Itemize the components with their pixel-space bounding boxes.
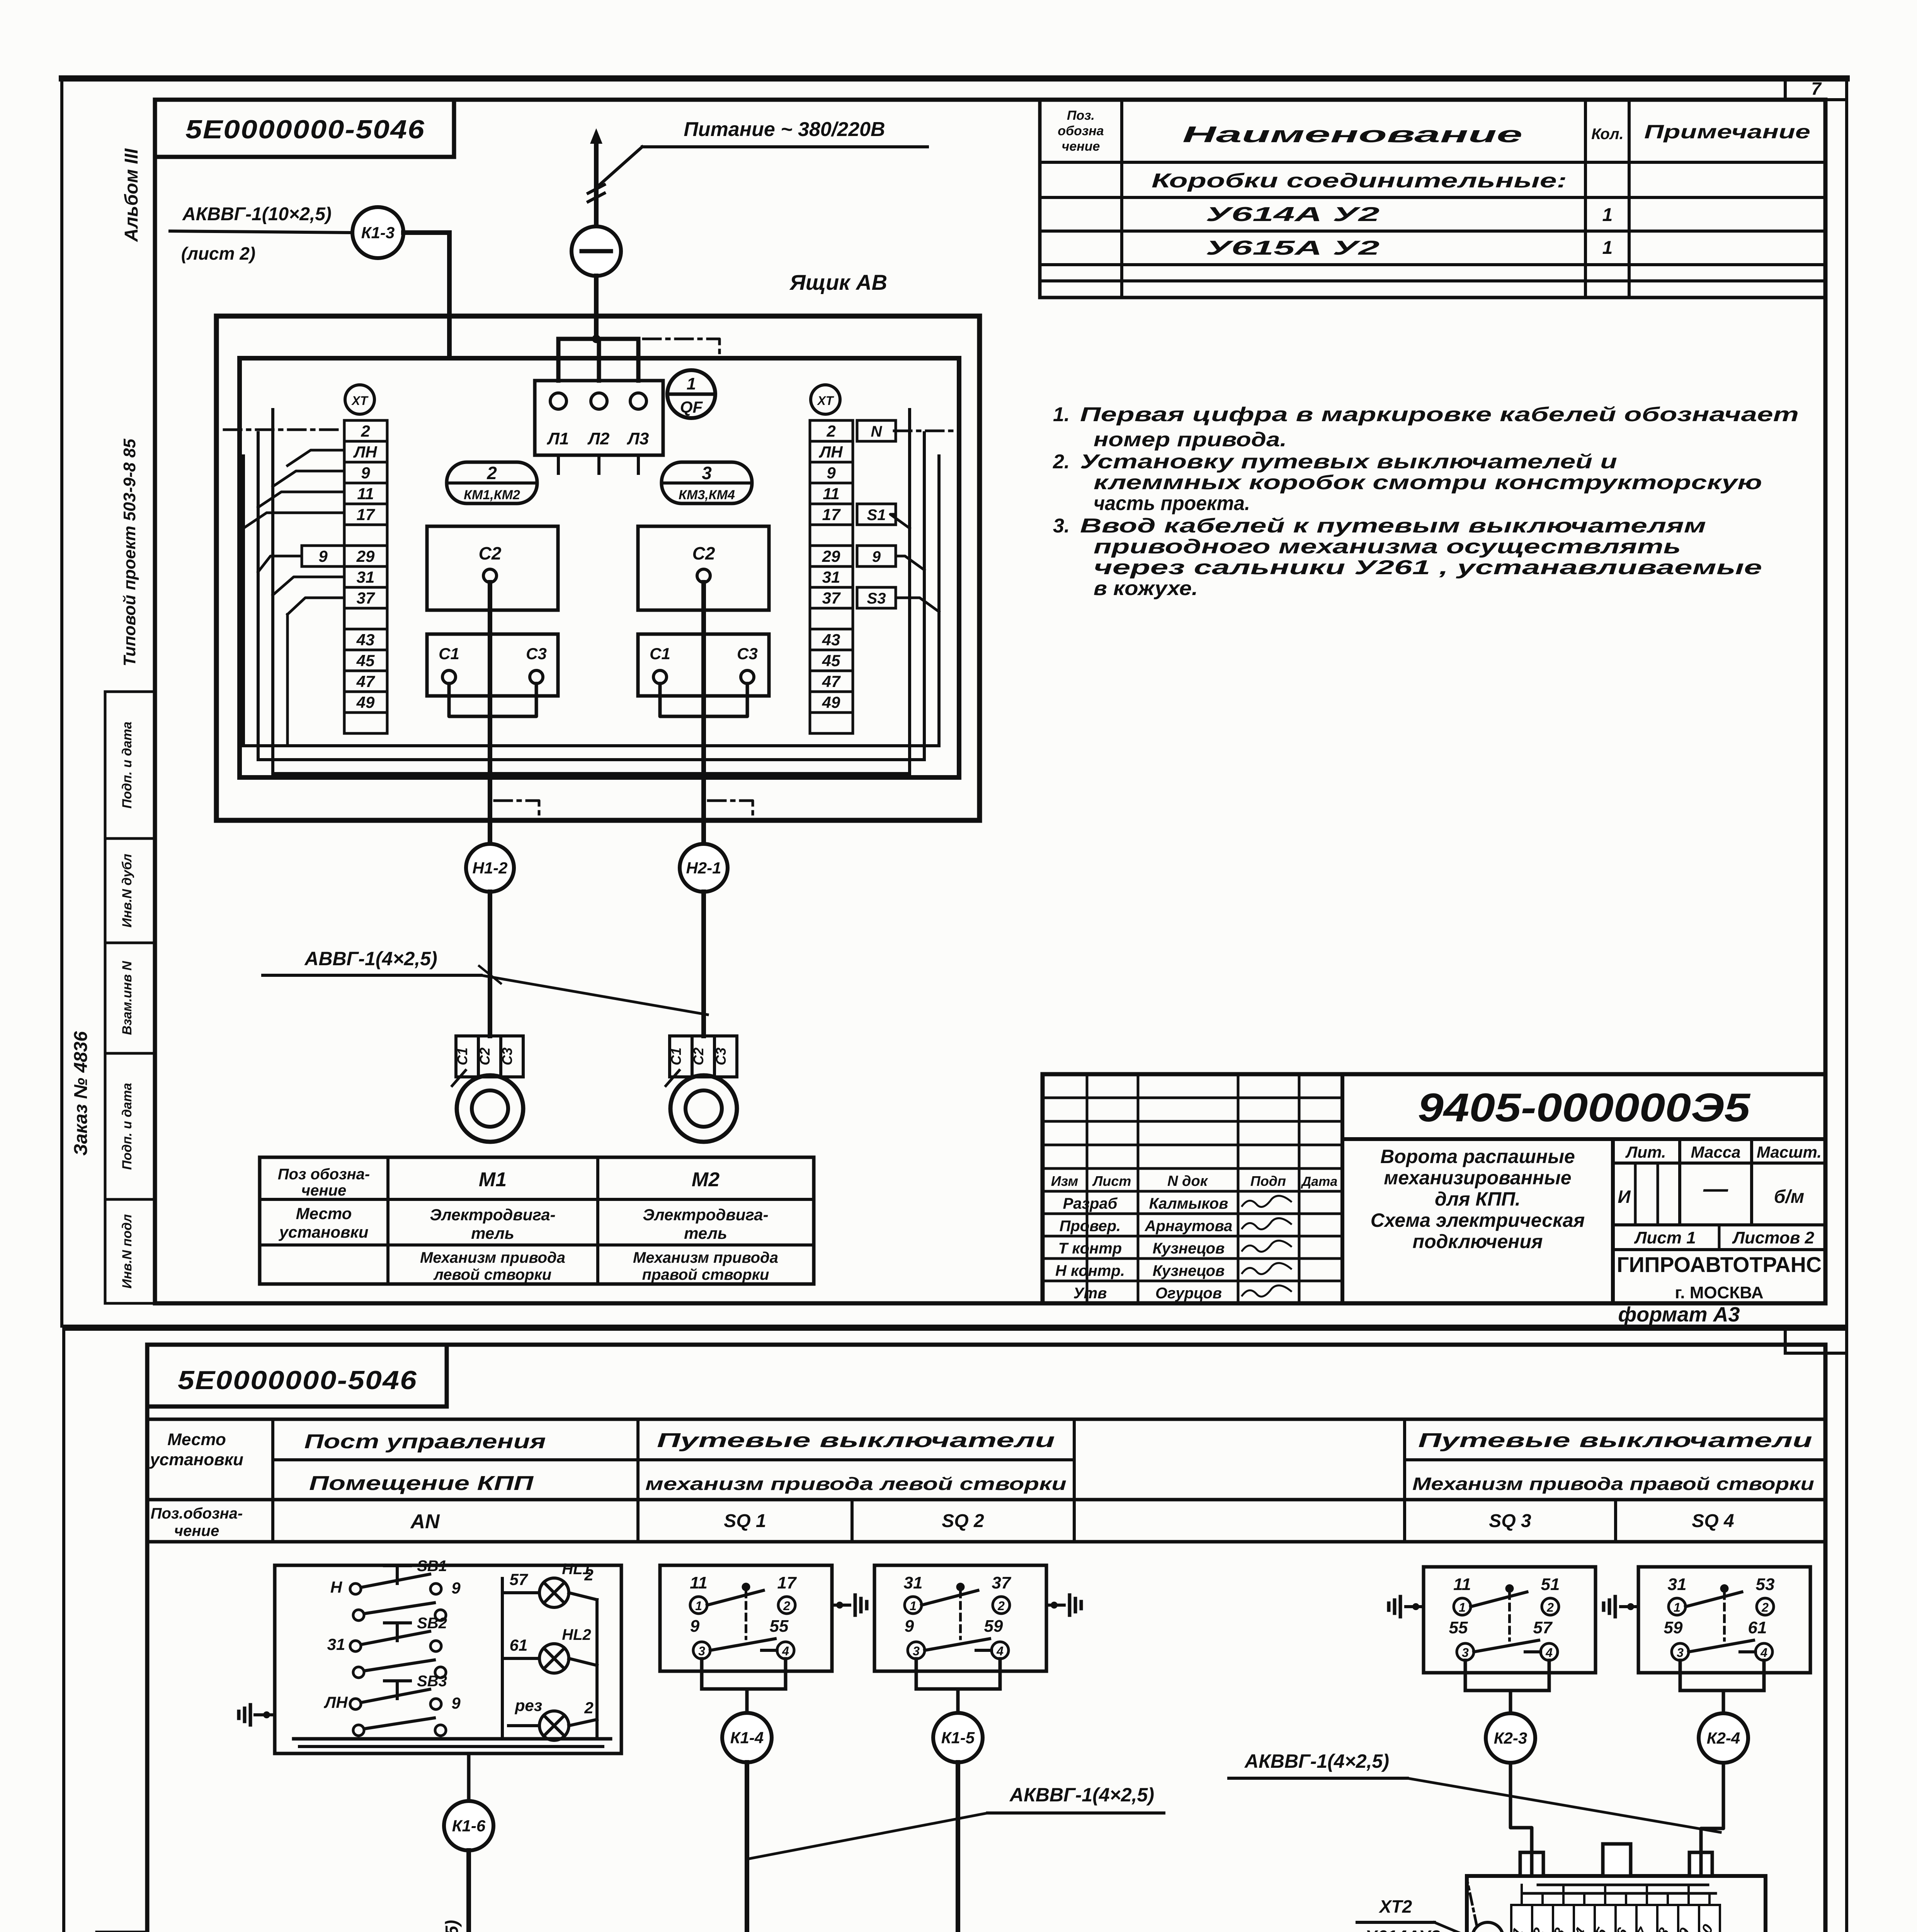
svg-text:9: 9	[318, 547, 328, 565]
svg-text:49: 49	[822, 693, 840, 711]
svg-text:SQ 4: SQ 4	[1692, 1511, 1734, 1531]
svg-text:механизированные: механизированные	[1384, 1167, 1571, 1189]
svg-text:К2-3: К2-3	[1494, 1729, 1527, 1747]
svg-text:К2-4: К2-4	[1707, 1729, 1740, 1747]
svg-text:Типовой проект 503-9-8 85: Типовой проект 503-9-8 85	[120, 439, 139, 666]
svg-text:У614А У2: У614А У2	[1206, 203, 1379, 226]
svg-text:С2: С2	[692, 543, 715, 563]
svg-text:правой створки: правой створки	[642, 1266, 769, 1283]
svg-text:SQ 1: SQ 1	[724, 1511, 766, 1531]
svg-text:1.: 1.	[1053, 403, 1070, 426]
svg-text:Альбом III: Альбом III	[121, 148, 142, 242]
svg-text:2: 2	[1546, 1600, 1554, 1614]
svg-text:г. МОСКВА: г. МОСКВА	[1675, 1283, 1763, 1302]
svg-text:Н1-2: Н1-2	[472, 859, 507, 877]
svg-text:Лит.: Лит.	[1625, 1143, 1666, 1161]
svg-text:Н: Н	[330, 1578, 343, 1596]
svg-text:левой створки: левой створки	[433, 1266, 551, 1283]
svg-text:47: 47	[356, 672, 375, 690]
svg-text:59: 59	[1664, 1618, 1683, 1637]
svg-text:Электродвига-: Электродвига-	[643, 1206, 768, 1224]
svg-text:11: 11	[1453, 1575, 1471, 1594]
svg-text:17: 17	[357, 505, 375, 524]
svg-text:Коробки соединительные:: Коробки соединительные:	[1152, 170, 1567, 192]
svg-text:S3: S3	[867, 590, 886, 607]
svg-text:Калмыков: Калмыков	[1149, 1195, 1228, 1212]
svg-text:Заказ № 4836: Заказ № 4836	[71, 1031, 91, 1156]
svg-text:57: 57	[1533, 1618, 1553, 1637]
svg-text:Схема электрическая: Схема электрическая	[1371, 1209, 1585, 1231]
svg-text:АКВВГ-1(4×2,5): АКВВГ-1(4×2,5)	[1244, 1750, 1389, 1772]
svg-text:SB2: SB2	[417, 1615, 447, 1632]
svg-text:5Е0000000-5046: 5Е0000000-5046	[178, 1366, 417, 1395]
svg-text:установки: установки	[149, 1450, 243, 1469]
svg-text:механизм привода левой створки: механизм привода левой створки	[645, 1474, 1067, 1494]
svg-text:часть проекта.: часть проекта.	[1094, 492, 1250, 515]
svg-text:Первая цифра в маркировке кабе: Первая цифра в маркировке кабелей обозна…	[1080, 403, 1799, 426]
svg-text:53: 53	[1756, 1575, 1775, 1594]
svg-text:2: 2	[997, 1599, 1005, 1613]
svg-text:КМ1,КМ2: КМ1,КМ2	[464, 488, 520, 502]
svg-text:4: 4	[1760, 1646, 1767, 1660]
svg-text:Подп. и дата: Подп. и дата	[120, 721, 134, 808]
svg-text:43: 43	[356, 631, 375, 649]
svg-text:К1-5: К1-5	[941, 1729, 975, 1747]
svg-text:Лист: Лист	[1092, 1173, 1131, 1189]
svg-text:Л1: Л1	[547, 429, 569, 448]
svg-text:Установку путевых выключателей: Установку путевых выключателей и	[1080, 451, 1617, 473]
svg-text:3: 3	[913, 1644, 920, 1658]
svg-text:Масшт.: Масшт.	[1757, 1143, 1822, 1161]
svg-text:9: 9	[905, 1617, 914, 1636]
svg-text:К1-3: К1-3	[361, 224, 395, 242]
svg-text:М1: М1	[479, 1168, 507, 1191]
svg-text:AN: AN	[410, 1510, 440, 1533]
svg-text:31: 31	[1668, 1575, 1687, 1594]
svg-text:17: 17	[777, 1573, 797, 1592]
svg-text:С2: С2	[477, 1048, 493, 1065]
svg-text:11: 11	[357, 485, 374, 503]
svg-text:Дата: Дата	[1301, 1174, 1338, 1189]
svg-text:55: 55	[770, 1617, 789, 1636]
svg-text:9: 9	[827, 464, 836, 482]
svg-text:Н контр.: Н контр.	[1055, 1262, 1125, 1279]
svg-text:2: 2	[1761, 1600, 1769, 1614]
svg-text:Инв.N подл: Инв.N подл	[120, 1214, 134, 1289]
svg-text:S1: S1	[867, 507, 886, 524]
svg-text:9: 9	[690, 1617, 700, 1636]
svg-text:Механизм привода: Механизм привода	[420, 1249, 565, 1266]
svg-text:чение: чение	[1062, 139, 1100, 154]
svg-text:Кол.: Кол.	[1591, 126, 1624, 143]
svg-text:43: 43	[822, 631, 840, 649]
svg-text:тель: тель	[471, 1224, 514, 1242]
svg-text:57: 57	[510, 1570, 528, 1588]
svg-text:ЛН: ЛН	[323, 1693, 348, 1711]
svg-text:приводного механизма осущест: приводного механизма осуществлять	[1094, 536, 1681, 558]
svg-text:ХТ: ХТ	[351, 394, 369, 408]
svg-text:через сальники У261 , устанав: через сальники У261 , устанавливаемые	[1094, 556, 1762, 579]
svg-text:1: 1	[687, 374, 696, 393]
svg-text:АКВВГ-1(10×2,5): АКВВГ-1(10×2,5)	[182, 204, 332, 224]
svg-text:КМ3,КМ4: КМ3,КМ4	[679, 488, 735, 502]
svg-text:С3: С3	[526, 645, 547, 663]
svg-text:У615А У2: У615А У2	[1206, 237, 1379, 259]
svg-text:Взам.инв N: Взам.инв N	[120, 961, 134, 1035]
svg-text:Электродвига-: Электродвига-	[430, 1206, 555, 1224]
svg-text:29: 29	[822, 547, 840, 565]
svg-text:Провер.: Провер.	[1060, 1218, 1121, 1235]
svg-text:51: 51	[1541, 1575, 1560, 1594]
svg-text:11: 11	[823, 485, 840, 503]
svg-text:2.: 2.	[1053, 451, 1070, 473]
svg-text:номер привода.: номер привода.	[1094, 429, 1287, 451]
svg-text:ЛН: ЛН	[818, 443, 843, 461]
svg-text:АКВВГ-1( 10×2,5): АКВВГ-1( 10×2,5)	[442, 1920, 462, 1932]
svg-text:рез: рез	[515, 1696, 542, 1714]
svg-text:61: 61	[1748, 1618, 1767, 1637]
svg-text:Лист 1: Лист 1	[1634, 1228, 1696, 1247]
svg-text:3: 3	[702, 463, 712, 483]
svg-text:1: 1	[1602, 238, 1613, 258]
svg-text:N док: N док	[1167, 1173, 1208, 1189]
svg-text:31: 31	[904, 1573, 923, 1592]
svg-text:Ввод кабелей к путевым выключа: Ввод кабелей к путевым выключателям	[1080, 515, 1706, 537]
svg-text:4: 4	[782, 1644, 789, 1658]
svg-text:N: N	[871, 423, 883, 440]
svg-text:Подп: Подп	[1250, 1173, 1286, 1189]
svg-text:2: 2	[486, 463, 497, 483]
svg-text:тель: тель	[684, 1224, 727, 1242]
svg-text:С3: С3	[713, 1048, 729, 1065]
svg-text:Питание ~ 380/220В: Питание ~ 380/220В	[684, 118, 885, 141]
svg-text:С1: С1	[650, 645, 670, 663]
svg-text:Пост управления: Пост управления	[304, 1430, 546, 1453]
svg-text:обозна: обозна	[1058, 124, 1104, 138]
svg-text:9: 9	[451, 1579, 461, 1597]
svg-text:17: 17	[822, 505, 841, 524]
svg-text:С1: С1	[454, 1048, 470, 1065]
svg-text:У614АУ2: У614АУ2	[1365, 1927, 1441, 1932]
svg-text:б/м: б/м	[1774, 1187, 1805, 1207]
svg-text:SB3: SB3	[417, 1673, 447, 1690]
svg-text:Инв.N дубл: Инв.N дубл	[120, 854, 134, 927]
svg-text:55: 55	[1449, 1618, 1468, 1637]
svg-text:3.: 3.	[1053, 515, 1070, 537]
svg-text:Л3: Л3	[627, 429, 649, 448]
svg-text:Наименование: Наименование	[1182, 122, 1522, 147]
svg-text:31: 31	[357, 568, 375, 586]
svg-text:(лист 2): (лист 2)	[181, 243, 255, 264]
svg-text:чение: чение	[301, 1182, 346, 1199]
svg-text:2: 2	[361, 422, 370, 440]
svg-text:5Е0000000-5046: 5Е0000000-5046	[185, 115, 425, 144]
svg-text:37: 37	[992, 1573, 1012, 1592]
svg-text:49: 49	[356, 693, 375, 711]
svg-text:Масса: Масса	[1691, 1143, 1741, 1161]
svg-text:4: 4	[1545, 1646, 1553, 1660]
svg-text:Л2: Л2	[587, 429, 610, 448]
svg-text:для КПП.: для КПП.	[1435, 1188, 1521, 1210]
svg-text:Путевые выключатели: Путевые выключатели	[657, 1429, 1055, 1452]
svg-text:С3: С3	[737, 645, 758, 663]
svg-text:3: 3	[698, 1644, 705, 1658]
svg-text:в кожухе.: в кожухе.	[1094, 577, 1198, 600]
svg-text:Место: Место	[167, 1430, 226, 1449]
svg-text:Место: Место	[296, 1204, 352, 1223]
svg-text:Изм: Изм	[1051, 1173, 1078, 1189]
svg-text:2: 2	[584, 1566, 593, 1584]
svg-text:2: 2	[584, 1699, 593, 1717]
svg-text:—: —	[1703, 1175, 1728, 1202]
svg-text:31: 31	[327, 1635, 345, 1653]
svg-text:Механизм привода: Механизм привода	[633, 1249, 778, 1266]
svg-text:Кузнецов: Кузнецов	[1153, 1240, 1225, 1257]
svg-text:47: 47	[822, 672, 841, 690]
svg-text:1: 1	[1674, 1600, 1681, 1614]
svg-text:Механизм привода правой створк: Механизм привода правой створки	[1412, 1474, 1814, 1494]
svg-text:3: 3	[1677, 1646, 1684, 1660]
svg-text:ЛН: ЛН	[353, 443, 378, 461]
svg-text:1: 1	[695, 1599, 702, 1613]
svg-text:SB1: SB1	[417, 1558, 447, 1575]
svg-text:Арнаутова: Арнаутова	[1145, 1218, 1233, 1235]
svg-text:Листов 2: Листов 2	[1732, 1228, 1815, 1247]
svg-text:Разраб: Разраб	[1063, 1195, 1118, 1212]
svg-text:Примечание: Примечание	[1644, 121, 1810, 143]
svg-text:чение: чение	[174, 1522, 219, 1539]
svg-text:Помещение КПП: Помещение КПП	[309, 1472, 534, 1495]
svg-text:АВВГ-1(4×2,5): АВВГ-1(4×2,5)	[304, 948, 437, 969]
svg-text:подключения: подключения	[1413, 1231, 1543, 1252]
svg-text:установки: установки	[279, 1223, 369, 1241]
svg-text:1: 1	[1602, 205, 1613, 225]
svg-text:С1: С1	[668, 1048, 684, 1065]
svg-text:Н2-1: Н2-1	[686, 859, 721, 877]
svg-text:формат А3: формат А3	[1618, 1303, 1740, 1326]
svg-text:37: 37	[357, 589, 375, 607]
svg-text:37: 37	[822, 589, 841, 607]
svg-text:ХТ: ХТ	[817, 394, 834, 408]
svg-text:Утв: Утв	[1073, 1285, 1107, 1302]
svg-text:ГИПРОАВТОТРАНС: ГИПРОАВТОТРАНС	[1617, 1252, 1822, 1277]
svg-text:Огурцов: Огурцов	[1155, 1285, 1222, 1302]
svg-text:11: 11	[690, 1573, 708, 1592]
svg-text:59: 59	[984, 1617, 1003, 1636]
svg-text:Путевые выключатели: Путевые выключатели	[1418, 1429, 1812, 1452]
svg-text:HL2: HL2	[562, 1626, 591, 1643]
svg-text:С3: С3	[499, 1048, 515, 1065]
svg-text:7: 7	[1811, 78, 1822, 99]
svg-text:АКВВГ-1(4×2,5): АКВВГ-1(4×2,5)	[1009, 1784, 1154, 1806]
svg-text:С1: С1	[439, 645, 459, 663]
svg-text:С2: С2	[691, 1048, 706, 1065]
svg-text:SQ 3: SQ 3	[1489, 1511, 1531, 1531]
svg-text:61: 61	[510, 1636, 528, 1654]
svg-text:Поз обозна-: Поз обозна-	[278, 1166, 370, 1183]
svg-text:1: 1	[910, 1599, 917, 1613]
svg-text:Подп. и дата: Подп. и дата	[120, 1083, 134, 1170]
svg-text:45: 45	[356, 651, 375, 670]
svg-text:3: 3	[1462, 1646, 1469, 1660]
svg-text:Поз.обозна-: Поз.обозна-	[151, 1505, 243, 1522]
svg-text:Ящик АВ: Ящик АВ	[789, 270, 887, 294]
svg-text:45: 45	[822, 651, 840, 670]
svg-text:9: 9	[872, 548, 881, 565]
svg-text:29: 29	[356, 547, 375, 565]
svg-text:клеммных коробок смотри констр: клеммных коробок смотри конструкторскую	[1094, 471, 1762, 494]
svg-text:1: 1	[1459, 1600, 1466, 1614]
svg-text:QF: QF	[680, 398, 703, 417]
svg-text:SQ 2: SQ 2	[942, 1511, 984, 1531]
svg-text:К1-6: К1-6	[452, 1817, 486, 1835]
svg-text:31: 31	[822, 568, 840, 586]
svg-text:К1-4: К1-4	[730, 1729, 764, 1747]
svg-text:2: 2	[826, 422, 835, 440]
svg-text:И: И	[1618, 1187, 1631, 1207]
svg-text:9405-000000Э5: 9405-000000Э5	[1418, 1085, 1751, 1130]
svg-text:4: 4	[996, 1644, 1004, 1658]
svg-text:С2: С2	[479, 543, 502, 563]
svg-text:Ворота распашные: Ворота распашные	[1380, 1146, 1575, 1167]
svg-text:ХТ2: ХТ2	[1378, 1896, 1412, 1917]
svg-text:9: 9	[361, 464, 370, 482]
svg-text:Поз.: Поз.	[1067, 108, 1095, 123]
svg-text:М2: М2	[692, 1168, 720, 1191]
svg-text:Кузнецов: Кузнецов	[1153, 1262, 1225, 1279]
svg-text:Т контр: Т контр	[1058, 1240, 1122, 1257]
svg-text:9: 9	[451, 1694, 461, 1712]
svg-text:2: 2	[783, 1599, 790, 1613]
